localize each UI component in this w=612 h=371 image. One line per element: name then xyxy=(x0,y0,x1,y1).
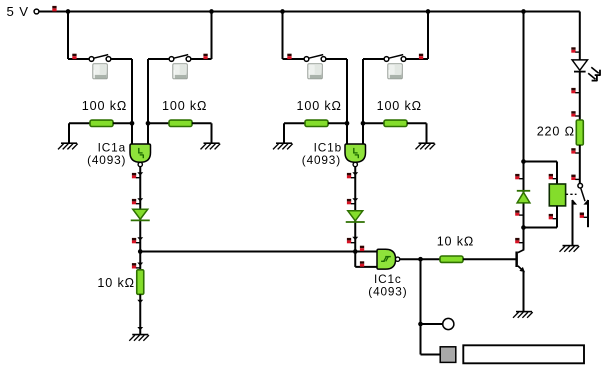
LED D4 emission arrow 1 xyxy=(591,67,598,73)
current arrow IC1b chain 1 xyxy=(352,172,358,175)
wire switch S2 right lead xyxy=(191,58,212,60)
wire ground to resistor R3 xyxy=(284,122,305,124)
push switch S2 button xyxy=(173,64,188,79)
node junction rail-switch S3 xyxy=(280,9,285,14)
wire resistor R3 to node A2 xyxy=(328,122,347,124)
resistor R6 10 kΩ xyxy=(440,256,463,262)
state marker at switch S4 input xyxy=(419,54,423,57)
wire switch S3 left lead xyxy=(283,58,305,60)
node B1 xyxy=(146,121,151,126)
wire switch S1 left lead xyxy=(68,58,89,60)
push switch S3 contacts xyxy=(304,57,309,62)
state marker LED branch 5 xyxy=(571,175,575,178)
current arrow pulldown 1 xyxy=(137,263,143,266)
wire switch S4 down to node B2 xyxy=(362,59,364,123)
diode D2 xyxy=(348,211,363,221)
resistor R4 100 kΩ xyxy=(384,120,407,126)
node B2 xyxy=(361,121,366,126)
wire rail down to relay top node xyxy=(523,12,525,162)
power terminal 5 V xyxy=(34,9,39,14)
wire node B1 to resistor R2 xyxy=(148,122,169,124)
ground relay NO contact xyxy=(563,245,579,247)
wire rail down to switch S3 xyxy=(282,12,284,60)
wire resistor R7 to relay pivot xyxy=(579,145,581,183)
node junction rail-relay branch xyxy=(521,9,526,14)
state marker LED branch 2 xyxy=(571,88,575,91)
sounder connection box xyxy=(440,347,456,363)
resistor R3 100 kΩ xyxy=(305,120,328,126)
svg-text:10 kΩ: 10 kΩ xyxy=(97,276,134,290)
wire switch S2 left lead xyxy=(148,58,169,60)
sounder body xyxy=(463,345,584,363)
transistor Q1 collector stroke xyxy=(518,250,524,253)
wire switch S2 down to node B1 xyxy=(147,59,149,123)
push switch S1 button xyxy=(93,64,108,79)
state marker IC1c top input xyxy=(360,246,364,249)
state marker pulldown xyxy=(132,263,136,266)
relay coil RL1 xyxy=(549,184,565,206)
wire resistor R5 to ground xyxy=(139,294,141,334)
wire node C to node D (AND bus) xyxy=(140,251,355,253)
wire switch S4 right lead xyxy=(406,58,428,60)
svg-text:100 kΩ: 100 kΩ xyxy=(377,99,422,113)
resistor R1 100 kΩ xyxy=(90,120,113,126)
node F xyxy=(418,322,423,327)
wire resistor R2 to ground xyxy=(192,122,212,124)
current arrow IC1b chain 2 xyxy=(352,198,358,201)
wire node A2 to IC1b input xyxy=(346,123,348,145)
state marker IC1b chain 1 xyxy=(347,173,351,176)
svg-text:100 kΩ: 100 kΩ xyxy=(297,99,342,113)
ground pair1 left xyxy=(68,123,70,143)
transistor Q1 emitter arrow xyxy=(519,267,525,272)
ground pair2 left xyxy=(283,123,285,143)
wire ground to resistor R1 xyxy=(69,122,90,124)
ground pair2 right xyxy=(426,123,428,143)
wire switch S3 right lead xyxy=(326,58,347,60)
current arrow IC1a chain 3 xyxy=(137,237,143,240)
wire top 5V rail xyxy=(39,11,580,13)
resistor R7 220 Ω (vertical) xyxy=(576,120,583,145)
state marker IC1b chain 3 xyxy=(347,238,351,241)
wire node F to test point xyxy=(421,323,443,325)
wire IC1a output down xyxy=(139,167,141,252)
state marker IC1a chain 2 xyxy=(132,199,136,202)
push switch S3 button xyxy=(308,64,323,79)
svg-text:5 V: 5 V xyxy=(7,4,29,19)
relay contact NO terminal xyxy=(573,199,578,204)
wire emitter down to ground xyxy=(523,272,525,312)
wire node E down to node F xyxy=(420,259,422,324)
svg-text:(4093): (4093) xyxy=(368,285,407,299)
wire resistor R4 to ground xyxy=(407,122,427,124)
ground transistor emitter xyxy=(516,311,532,313)
state marker diode branch upper xyxy=(515,174,519,177)
relay contact NC terminal xyxy=(583,199,588,204)
node A1 xyxy=(130,121,135,126)
node D (diode-AND node right) xyxy=(353,249,358,254)
push switch S4 contacts xyxy=(401,57,406,62)
nand gate IC1a (4093 Schmitt) xyxy=(130,144,151,162)
test point terminal xyxy=(443,318,454,329)
push switch S2 contacts xyxy=(186,57,191,62)
resistor R5 10 kΩ (vertical) xyxy=(137,270,144,295)
wire relay top node down (diode branch) xyxy=(523,162,525,228)
svg-text:(4093): (4093) xyxy=(87,153,126,167)
wire collector up to relay node xyxy=(523,228,525,250)
ground pair1 right xyxy=(211,123,213,143)
wire rail corner down to LED xyxy=(579,12,581,61)
wire node C down to resistor R5 xyxy=(139,252,141,271)
state marker diode branch lower xyxy=(515,210,519,213)
wire rail down to switch S1 xyxy=(67,12,69,60)
wire IC1b output down xyxy=(354,167,356,252)
state marker IC1a chain 1 xyxy=(132,173,136,176)
current arrow IC1a chain 1 xyxy=(137,172,143,175)
wire relay top node to coil xyxy=(524,161,558,163)
state marker coil upper xyxy=(549,174,553,177)
relay actuation dashed link xyxy=(566,193,577,195)
push switch S1 contacts xyxy=(89,57,94,62)
wire rail down to switch S4 xyxy=(427,12,429,60)
transistor Q1 emitter stroke xyxy=(518,266,524,272)
wire switch S1 right lead xyxy=(111,58,132,60)
current arrow IC1a chain 2 xyxy=(137,198,143,201)
wire node E to resistor R6 xyxy=(421,258,441,260)
wire coil to relay bottom node xyxy=(556,206,558,228)
nand gate IC1b (4093 Schmitt) xyxy=(345,144,366,162)
node E xyxy=(418,257,423,262)
svg-text:100 kΩ: 100 kΩ xyxy=(162,99,207,113)
node A2 xyxy=(345,121,350,126)
wire node B2 to resistor R4 xyxy=(363,122,384,124)
diode D1 xyxy=(133,209,148,219)
svg-text:100 kΩ: 100 kΩ xyxy=(82,99,127,113)
wire switch S1 down to node A1 xyxy=(131,59,133,123)
state marker IC1b chain 2 xyxy=(347,199,351,202)
LED D4 emission arrow 2 xyxy=(588,73,595,79)
ground pulldown R5 xyxy=(132,334,148,336)
wire node D down for bottom input xyxy=(354,252,356,267)
svg-text:220 Ω: 220 Ω xyxy=(537,125,575,139)
resistor R2 100 kΩ xyxy=(169,120,192,126)
node relay bottom xyxy=(521,225,526,230)
node relay top xyxy=(521,159,526,164)
state marker at collector xyxy=(515,238,519,241)
state marker LED branch 1 xyxy=(571,47,575,50)
state marker LED branch 4 xyxy=(571,148,575,151)
wire resistor R6 to transistor base xyxy=(463,258,516,260)
relay contact pivot xyxy=(578,183,583,188)
state marker coil lower xyxy=(549,214,553,217)
flyback diode D3 (points up) xyxy=(517,190,530,192)
wire node B2 to IC1b input xyxy=(362,123,364,145)
wire switch S3 down to node A2 xyxy=(346,59,348,123)
svg-text:(4093): (4093) xyxy=(302,153,341,167)
state marker at switch S2 input xyxy=(203,54,207,57)
wire rail down to switch S2 xyxy=(211,12,213,60)
current arrow IC1b chain 3 xyxy=(352,237,358,240)
current arrow pulldown 3 xyxy=(137,327,143,330)
node junction rail-switch S1 xyxy=(66,9,71,14)
wire node D to IC1c top input xyxy=(355,251,377,253)
node junction rail-switch S4 xyxy=(426,9,431,14)
state marker IC1c bottom input xyxy=(360,261,364,264)
wire IC1c output to node E xyxy=(400,258,421,260)
node C (diode-AND node left) xyxy=(138,249,143,254)
wire switch S4 left lead xyxy=(363,58,384,60)
wire node F down to sounder xyxy=(420,324,422,355)
state marker NC stub xyxy=(580,213,584,216)
state marker at switch S3 input xyxy=(287,54,291,57)
state marker at switch S1 input xyxy=(72,54,76,57)
transistor Q1 base bar xyxy=(515,252,518,268)
wire LED to resistor R7 xyxy=(579,72,581,120)
wire resistor R1 to node A1 xyxy=(113,122,132,124)
node junction rail-switch S2 xyxy=(209,9,214,14)
push switch S4 button xyxy=(388,64,403,79)
wire node B1 to IC1a input xyxy=(147,123,149,145)
nand gate IC1c (4093 Schmitt) xyxy=(377,249,396,269)
state marker on 5V rail xyxy=(52,6,56,8)
wire to IC1c bottom input xyxy=(355,266,377,268)
current arrow pulldown 2 xyxy=(137,300,143,303)
state marker IC1a chain 3 xyxy=(132,238,136,241)
wire node A1 to IC1a input xyxy=(131,123,133,145)
state marker LED branch 3 xyxy=(571,111,575,114)
svg-text:10 kΩ: 10 kΩ xyxy=(437,234,474,248)
LED D4 (off) xyxy=(572,60,587,70)
relay contact lever xyxy=(581,188,585,201)
